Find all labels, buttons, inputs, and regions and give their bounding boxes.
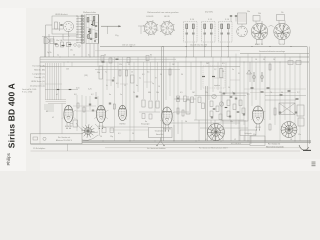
coil L5 bbox=[93, 17, 95, 21]
svg-text:0,01: 0,01 bbox=[76, 88, 80, 90]
wire bbox=[247, 54, 249, 142]
tube V4 EABC80 bbox=[162, 107, 172, 125]
wire bbox=[185, 57, 187, 96]
wire bbox=[137, 57, 139, 92]
wire bbox=[97, 96, 99, 110]
wire bbox=[274, 57, 276, 125]
wire bbox=[200, 62, 202, 90]
socket below transformer bbox=[237, 26, 248, 37]
volume pot bbox=[186, 100, 190, 114]
wire bbox=[208, 62, 210, 100]
wire bundle to mains box bbox=[61, 104, 63, 135]
resistor bbox=[210, 111, 213, 117]
junction box bottom bbox=[250, 136, 265, 146]
wire bbox=[150, 62, 152, 100]
wires under EM80 resistors bbox=[139, 111, 160, 113]
wire bbox=[85, 96, 87, 124]
resistor R8 bbox=[126, 70, 128, 76]
svg-text:50k: 50k bbox=[219, 92, 222, 94]
svg-text:EM 80: EM 80 bbox=[120, 124, 127, 126]
svg-text:a1: a1 bbox=[56, 94, 58, 96]
svg-text:9b: 9b bbox=[185, 121, 187, 123]
IF transformer block 1 bbox=[184, 22, 198, 43]
svg-text:18: 18 bbox=[222, 71, 224, 73]
svg-text:20: 20 bbox=[100, 136, 102, 138]
socket diagram EL84 bbox=[277, 15, 285, 21]
capacitor C12 bbox=[95, 97, 97, 99]
ratio detector network bbox=[202, 76, 205, 77]
wire bbox=[210, 120, 212, 141]
wire bbox=[264, 57, 266, 141]
svg-text:3c: 3c bbox=[88, 55, 90, 57]
electrolytic capacitors bbox=[253, 72, 255, 82]
wire stubs mid band bbox=[106, 79, 112, 81]
svg-text:8a: 8a bbox=[145, 121, 147, 123]
IF transformer block 3 bbox=[219, 22, 233, 43]
svg-text:4n: 4n bbox=[109, 94, 111, 96]
svg-text:68k: 68k bbox=[148, 92, 151, 94]
svg-text:7k: 7k bbox=[270, 92, 272, 94]
junction rect 1 bbox=[102, 128, 106, 133]
wires right area bbox=[265, 95, 306, 97]
switch box S3 bbox=[127, 58, 130, 63]
wire bbox=[198, 120, 200, 141]
cable check curve bbox=[299, 145, 309, 150]
wire bbox=[284, 54, 286, 121]
svg-text:13p: 13p bbox=[110, 136, 113, 138]
IF coil b bbox=[210, 24, 212, 29]
small parts right top bbox=[288, 61, 293, 65]
svg-text:12k: 12k bbox=[119, 64, 122, 66]
IF coil b bbox=[227, 24, 229, 29]
svg-text:6,8: 6,8 bbox=[74, 94, 77, 96]
junction dots on bus bbox=[59, 56, 62, 59]
wire bbox=[113, 57, 115, 141]
wire bbox=[97, 44, 99, 67]
junction dots bottom rail bbox=[103, 141, 104, 142]
UKW tuner unit box bbox=[52, 16, 78, 34]
wire y89.5 bbox=[45, 89, 78, 91]
wires left of phono box bbox=[103, 126, 149, 128]
tuning gang bbox=[73, 120, 78, 127]
junction rect 2 bbox=[110, 128, 114, 133]
socket ECH81 bottom view bbox=[144, 22, 157, 35]
svg-text:0,1: 0,1 bbox=[142, 74, 145, 76]
svg-text:4c: 4c bbox=[106, 85, 108, 87]
wire bbox=[251, 57, 253, 106]
svg-text:0,1: 0,1 bbox=[247, 94, 250, 96]
wire bbox=[299, 54, 301, 142]
wire bbox=[230, 120, 232, 141]
IF trim caps bbox=[204, 32, 206, 34]
socket diagram EABC80 bbox=[253, 16, 260, 22]
right boundary wires bbox=[307, 47, 309, 151]
wire bbox=[177, 62, 179, 120]
svg-text:30: 30 bbox=[181, 74, 183, 76]
dark rail end bbox=[303, 149, 311, 151]
resistor bbox=[239, 100, 242, 106]
svg-text:(12f): (12f) bbox=[84, 75, 88, 77]
resistor bbox=[216, 106, 219, 112]
wire bbox=[181, 120, 183, 141]
resistor bbox=[242, 108, 245, 114]
wire bbox=[122, 57, 124, 105]
component row below UKW box bbox=[42, 35, 70, 37]
parts between V1 and V2 bbox=[77, 103, 79, 108]
capacitor bbox=[233, 92, 235, 94]
wire bbox=[212, 57, 214, 92]
resistor R14 bbox=[269, 64, 271, 70]
antenna symbol bbox=[47, 38, 50, 41]
svg-text:20k: 20k bbox=[258, 13, 261, 15]
switch box S2 bbox=[109, 58, 112, 63]
svg-text:1,2: 1,2 bbox=[214, 69, 216, 71]
diode D1 bbox=[247, 70, 252, 74]
socket EF89 bottom view bbox=[161, 22, 174, 35]
wires IF block to bus bbox=[186, 42, 188, 57]
svg-text:3,2: 3,2 bbox=[297, 92, 300, 94]
wires coil block to bus bbox=[81, 44, 83, 58]
specks upper right bbox=[280, 94, 283, 95]
svg-text:15: 15 bbox=[131, 72, 133, 74]
resistor bbox=[210, 101, 213, 107]
bus line 4 bbox=[40, 66, 240, 68]
svg-text:7a: 7a bbox=[105, 72, 107, 74]
wire bbox=[106, 62, 108, 90]
IF trim caps bbox=[186, 32, 188, 34]
resistor bbox=[233, 104, 236, 110]
svg-text:25: 25 bbox=[128, 64, 130, 66]
svg-text:10c: 10c bbox=[230, 121, 233, 123]
svg-text:0,2: 0,2 bbox=[91, 94, 94, 96]
svg-text:2b: 2b bbox=[73, 55, 75, 57]
svg-text:EL 84: EL 84 bbox=[279, 44, 285, 46]
svg-text:1k: 1k bbox=[273, 59, 275, 61]
capacitor bbox=[295, 111, 297, 113]
wire bbox=[239, 57, 241, 141]
wires below motor box bbox=[250, 136, 252, 145]
svg-text:Tonabnehmer: Tonabnehmer bbox=[155, 131, 166, 133]
wire bbox=[133, 62, 135, 141]
svg-text:0,5: 0,5 bbox=[147, 72, 149, 74]
svg-text:12g: 12g bbox=[115, 35, 118, 37]
svg-text:8k: 8k bbox=[150, 55, 152, 57]
svg-text:2k: 2k bbox=[133, 92, 135, 94]
wire bbox=[222, 120, 224, 141]
wire bbox=[157, 62, 159, 100]
svg-text:3n: 3n bbox=[113, 78, 115, 80]
wire y84 bbox=[40, 83, 62, 85]
svg-text:k2: k2 bbox=[52, 117, 54, 119]
svg-text:9a: 9a bbox=[232, 69, 234, 71]
capacitor bbox=[229, 115, 231, 117]
svg-text:L1: L1 bbox=[205, 139, 207, 141]
wire bbox=[238, 120, 240, 141]
wire bbox=[229, 57, 231, 120]
left cable bundle bbox=[45, 63, 47, 100]
svg-text:1n: 1n bbox=[120, 94, 122, 96]
svg-text:0,5: 0,5 bbox=[180, 92, 183, 94]
svg-text:S 14: S 14 bbox=[190, 19, 194, 21]
resistor bbox=[227, 100, 230, 106]
svg-text:12b 12c 12d 12e: 12b 12c 12d 12e bbox=[122, 44, 135, 46]
resistor bbox=[269, 124, 271, 130]
coupling caps bbox=[136, 95, 138, 97]
cable Y split bbox=[157, 138, 164, 146]
wire bbox=[169, 62, 171, 96]
page stamp bbox=[312, 162, 316, 163]
svg-text:14a 14b 15a 16a 16b: 14a 14b 15a 16a 16b bbox=[190, 44, 207, 46]
parts between V2 and V3 bbox=[109, 102, 111, 104]
component box right of motor bbox=[240, 130, 256, 136]
svg-text:50p: 50p bbox=[97, 72, 100, 74]
svg-text:1g 1h: 1g 1h bbox=[47, 52, 52, 54]
wires IF block to bus bbox=[204, 42, 206, 57]
tube V1 ECH81 bbox=[64, 105, 73, 122]
svg-text:1a: 1a bbox=[57, 55, 59, 57]
wire bbox=[279, 62, 281, 141]
svg-text:Feldspule: Feldspule bbox=[244, 133, 251, 135]
svg-text:11d: 11d bbox=[253, 134, 256, 136]
wire bbox=[195, 57, 197, 120]
AF output stage box bbox=[222, 93, 248, 121]
svg-text:2p: 2p bbox=[152, 83, 154, 85]
wire bbox=[214, 120, 216, 141]
wire to sockets bbox=[138, 25, 144, 27]
wires IF block to bus bbox=[221, 42, 223, 57]
bus line 1 bbox=[40, 56, 309, 58]
bottom rail 2 bbox=[31, 142, 312, 144]
wire bbox=[235, 54, 237, 126]
svg-text:50: 50 bbox=[132, 133, 134, 135]
svg-text:14: 14 bbox=[158, 86, 160, 88]
bundle bend wires bbox=[46, 99, 67, 101]
wire bbox=[269, 62, 271, 120]
wire bbox=[294, 62, 296, 141]
signal arrow bbox=[101, 25, 121, 27]
bottom rail 1 bbox=[31, 140, 312, 142]
wires UKW to coil block bbox=[67, 31, 69, 36]
capacitor bbox=[211, 116, 213, 118]
paper background bbox=[0, 0, 320, 171]
wire bbox=[146, 57, 148, 88]
wire bbox=[255, 62, 257, 100]
motor/speaker symbol bbox=[212, 128, 221, 137]
svg-text:0,1: 0,1 bbox=[118, 133, 121, 135]
bottom rail 4 bbox=[105, 147, 300, 149]
output transformer symbol top right bbox=[238, 13, 247, 24]
svg-text:R 12 = 1 MΩ: R 12 = 1 MΩ bbox=[22, 92, 33, 94]
coil L4 bbox=[95, 33, 97, 38]
left boundary wire bbox=[39, 57, 41, 134]
resistor bbox=[227, 111, 230, 117]
diode circle 1 bbox=[212, 94, 216, 98]
capacitor bbox=[235, 97, 237, 99]
capacitor bbox=[243, 113, 245, 115]
wire bbox=[102, 57, 104, 120]
svg-text:20a: 20a bbox=[247, 11, 250, 13]
svg-text:12: 12 bbox=[124, 85, 126, 87]
svg-text:0,5: 0,5 bbox=[222, 63, 225, 65]
wire bbox=[243, 62, 245, 125]
IF coil b bbox=[192, 24, 194, 29]
bottom rail 5 bbox=[31, 150, 301, 152]
wire UKW left down bbox=[45, 32, 47, 57]
svg-text:k1: k1 bbox=[46, 111, 48, 113]
svg-text:S 15: S 15 bbox=[208, 19, 212, 21]
svg-text:13a 13b: 13a 13b bbox=[56, 40, 63, 42]
caps above IF3 bbox=[230, 15, 232, 17]
grid resistors before V4 bbox=[142, 100, 145, 107]
svg-text:0,3: 0,3 bbox=[116, 83, 118, 85]
resistor R5 bbox=[102, 61, 105, 62]
bottom rail 3 bbox=[31, 143, 251, 145]
svg-text:4d: 4d bbox=[104, 55, 106, 57]
wire bbox=[173, 57, 175, 141]
tube V5 EL84 bbox=[252, 106, 263, 124]
IF coil a bbox=[186, 24, 188, 29]
svg-text:5n: 5n bbox=[232, 92, 234, 94]
fuse bbox=[33, 137, 38, 140]
svg-text:2a: 2a bbox=[139, 78, 141, 80]
svg-text:50: 50 bbox=[263, 59, 265, 61]
coil pack body bbox=[86, 15, 99, 44]
output transformer bbox=[279, 103, 295, 115]
coil L3 bbox=[89, 29, 91, 34]
trimmer capacitors bbox=[90, 38, 92, 40]
svg-text:5h: 5h bbox=[228, 87, 230, 89]
bus line 2 bbox=[40, 58, 176, 60]
loudspeaker bbox=[285, 126, 293, 134]
tuning cap C20 bbox=[99, 66, 103, 79]
wire bbox=[190, 62, 192, 90]
antenna rail right bbox=[240, 53, 309, 55]
phono connection box bbox=[149, 128, 173, 138]
wire bbox=[89, 96, 91, 110]
IF transformer block 2 bbox=[202, 22, 216, 43]
svg-text:13c: 13c bbox=[70, 50, 73, 52]
svg-text:6e: 6e bbox=[136, 85, 138, 87]
wire bbox=[259, 54, 261, 107]
wire bbox=[217, 62, 219, 90]
wire top rail bbox=[100, 46, 307, 48]
dial drive assembly bbox=[85, 128, 92, 135]
svg-text:ECH 81: ECH 81 bbox=[65, 126, 73, 128]
svg-text:Sirius BD 400 A: Sirius BD 400 A bbox=[7, 83, 17, 148]
IF coil a bbox=[204, 24, 206, 29]
resistor R6 bbox=[116, 59, 119, 60]
svg-text:10k: 10k bbox=[156, 92, 159, 94]
svg-text:452 kHz: 452 kHz bbox=[205, 12, 213, 14]
coil L1 bbox=[87, 18, 89, 23]
bus line 5 bbox=[95, 69, 180, 71]
switch box S4 bbox=[146, 56, 149, 61]
svg-text:12e: 12e bbox=[298, 134, 301, 136]
wire bbox=[143, 62, 145, 99]
band switch contact column bbox=[81, 15, 83, 44]
pilot circle bbox=[43, 137, 46, 140]
screen partition 2 double line bbox=[205, 86, 207, 141]
resistor bbox=[274, 108, 276, 115]
tube V2 EF89 bbox=[96, 105, 105, 122]
wire bbox=[125, 62, 127, 120]
wire bbox=[154, 57, 156, 112]
svg-text:L2: L2 bbox=[234, 139, 236, 141]
wire bbox=[110, 57, 112, 86]
parts right of V4 bbox=[177, 108, 179, 114]
wire secondary rail bbox=[95, 50, 240, 52]
wire bbox=[81, 95, 83, 134]
tube pin wires bbox=[66, 123, 68, 129]
IF coil a bbox=[221, 24, 223, 29]
screen partition double line bbox=[161, 47, 163, 142]
svg-text:5-25: 5-25 bbox=[88, 89, 92, 91]
resistor R9 bbox=[169, 69, 171, 75]
wire bbox=[129, 57, 131, 141]
resistor R7 bbox=[119, 70, 121, 76]
diode circle 2 bbox=[219, 102, 223, 106]
svg-text:Philips: Philips bbox=[6, 153, 11, 165]
capacitor bbox=[223, 92, 225, 94]
svg-text:12h: 12h bbox=[66, 68, 69, 70]
wire bbox=[244, 120, 246, 141]
coil L2 bbox=[93, 21, 95, 26]
bus line 3 bbox=[40, 61, 309, 63]
coil L6 bbox=[88, 35, 90, 39]
capacitor C13 bbox=[112, 79, 114, 81]
wire bbox=[289, 57, 291, 125]
switch box S1 bbox=[101, 56, 104, 62]
svg-text:EF 89: EF 89 bbox=[164, 16, 170, 18]
dial scale ticks bbox=[44, 104, 54, 106]
wire bbox=[71, 62, 73, 67]
wire bbox=[76, 95, 78, 131]
resistor bbox=[219, 114, 222, 120]
right side boxes bbox=[297, 105, 304, 116]
feedback wires bbox=[194, 95, 246, 97]
internal wiring bbox=[86, 19, 98, 23]
connector curve between sockets bbox=[269, 26, 274, 28]
svg-text:25n: 25n bbox=[205, 92, 208, 94]
tube B1 UKW top view bbox=[63, 21, 73, 31]
capacitor bbox=[279, 111, 281, 113]
wire bbox=[67, 31, 69, 57]
svg-text:ECH 81: ECH 81 bbox=[146, 16, 154, 18]
svg-text:5k: 5k bbox=[160, 74, 162, 76]
wire bbox=[117, 62, 119, 88]
svg-text:16: 16 bbox=[255, 59, 257, 61]
UKW internal parts bbox=[55, 22, 58, 29]
svg-text:90: 90 bbox=[281, 92, 283, 94]
svg-text:S 16: S 16 bbox=[225, 19, 229, 21]
wire below box bbox=[67, 144, 69, 151]
svg-text:Langwelle (L): Langwelle (L) bbox=[32, 74, 45, 76]
wire bbox=[220, 57, 222, 122]
component C21 bbox=[131, 75, 135, 83]
wire bbox=[63, 62, 65, 67]
tube V3 EM80 bbox=[118, 105, 126, 120]
wire bbox=[165, 57, 167, 100]
wire bbox=[225, 62, 227, 94]
mains voltage selector box bbox=[31, 134, 83, 144]
IF trim caps bbox=[221, 32, 223, 34]
